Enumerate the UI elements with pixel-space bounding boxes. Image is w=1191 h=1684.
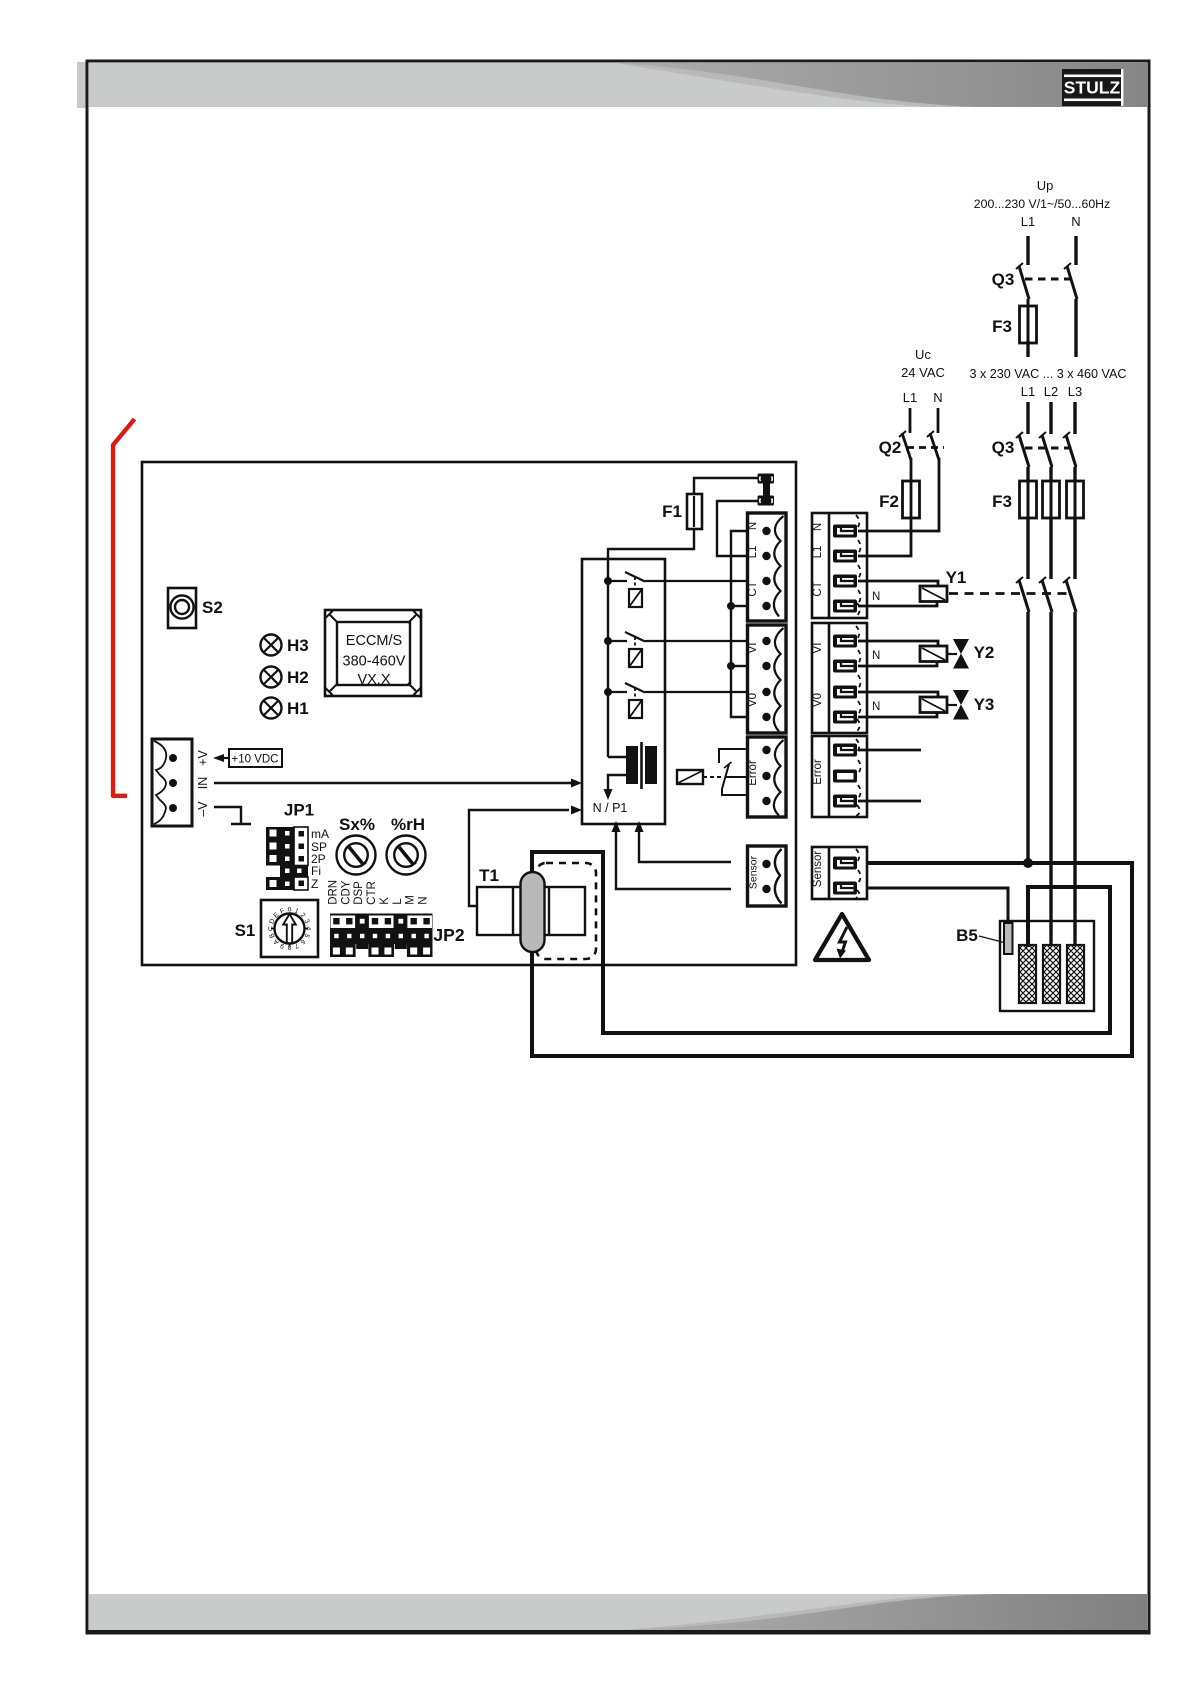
external terminal strip X2 (VI,V0) [812,623,867,733]
svg-text:Sensor: Sensor [812,851,824,888]
heating element E2 [1043,945,1060,1003]
svg-text:L1: L1 [903,390,917,405]
svg-text:8: 8 [287,943,291,950]
svg-text:Y2: Y2 [974,643,995,662]
wire sensor to B5 [866,888,1008,925]
node bus VI [604,637,612,645]
fuse F2 [879,458,919,518]
external terminal strip X1 (N,L1,CT) [812,513,867,618]
internal transformer [604,742,658,800]
controller relay box [582,559,665,824]
svg-text:ECCM/S: ECCM/S [346,633,402,649]
wire Up L1 stub [1026,236,1029,265]
svg-text:200...230 V/1~/50...60Hz: 200...230 V/1~/50...60Hz [974,197,1110,211]
svg-text:Q2: Q2 [879,438,902,457]
jumper block JP2 [327,880,464,957]
wire T1 primary to controller [469,810,569,906]
board connector block Sensor [748,846,787,906]
svg-text:F3: F3 [992,317,1012,336]
jumper block JP1 [266,801,314,891]
node bus CT [604,577,612,585]
wire N bus inner [731,531,746,717]
wire error out bottom [858,800,921,803]
svg-text:%rH: %rH [391,815,425,834]
svg-text:N / P1: N / P1 [593,801,628,815]
terminal X1:N [833,525,857,538]
relay channel V0 [608,683,746,718]
fuse F3 L1 [992,481,1036,518]
svg-text:L1: L1 [1021,384,1035,399]
arrow T1 into controller [571,806,582,815]
terminal X2:VI1 [833,635,857,648]
svg-text:Z: Z [311,877,318,891]
svg-text:Uc: Uc [915,347,931,362]
svg-text:4: 4 [304,927,311,931]
svg-text:Up: Up [1037,178,1054,193]
potentiometer Sx% [337,815,376,875]
svg-text:Error: Error [747,760,759,786]
analog input connector (3-pin) [152,739,192,826]
lamp H3 [261,635,309,656]
JP1 row labels [311,827,329,891]
solenoid valve Y2 [858,639,994,669]
header bar [89,63,1148,107]
wire L2 to heater [1049,612,1052,946]
node N bus VI [727,662,735,670]
svg-text:N: N [933,390,942,405]
board connector block VI,V0 [747,625,786,733]
relay channel VI [608,632,746,667]
svg-text:N: N [812,523,824,531]
svg-text:N: N [872,701,880,713]
relay channel CT [608,572,746,607]
svg-text:VI: VI [747,643,759,654]
node L1 heater N [1023,858,1033,868]
svg-text:L1: L1 [812,546,824,559]
terminal X3:1 [833,744,857,757]
svg-text:V0: V0 [812,693,824,707]
breaker Q3 (3ph) [992,432,1076,467]
switch Q2 [879,431,944,460]
svg-text:H3: H3 [287,636,309,655]
wire L2 stub [1049,402,1052,434]
external terminal strip X3 (Error) [812,736,867,817]
svg-text:Y3: Y3 [974,695,995,714]
solenoid valve Y3 [858,690,994,720]
svg-text:STULZ: STULZ [1064,78,1121,98]
pushbutton S2 [168,588,223,628]
footer bar [87,1594,1149,1635]
+10 VDC source box [229,749,282,767]
terminal X2:V01 [833,686,857,699]
contactor Y1 contacts [1016,577,1076,612]
lamp H1 [261,698,309,719]
board connector block CT (N,L1,CT) [747,513,786,621]
node N bus CT [727,602,735,610]
svg-text:Y1: Y1 [946,568,967,587]
terminal X1:L1 [833,550,857,563]
svg-text:L3: L3 [1068,384,1082,399]
terminal X1:CT1 [833,575,857,588]
node bus V0 [604,688,612,696]
svg-text:V0: V0 [747,693,759,707]
svg-text:L1: L1 [747,546,759,559]
fuse F1 [662,494,702,529]
wires Q3 to F3 [1026,467,1029,481]
svg-text:S2: S2 [202,598,223,617]
wire link to L1 terminal [717,501,758,556]
rotary switch S1 [235,900,318,957]
controller board outline [142,462,796,965]
svg-text:+10 VDC: +10 VDC [232,754,279,766]
lamp H2 [261,667,309,688]
svg-text:+V: +V [196,750,210,766]
svg-text:K: K [379,897,391,905]
changeover contact error [719,749,746,795]
wire +V arrow [213,754,229,762]
svg-text:Sensor: Sensor [748,855,760,889]
svg-text:N: N [418,896,430,904]
wire L1 stub [1026,402,1029,434]
svg-text:CT: CT [812,581,824,596]
svg-text:Q3: Q3 [992,270,1015,289]
svg-text:CDY: CDY [340,880,352,905]
heating element E3 [1067,945,1084,1003]
wire Uc N stub [937,408,940,433]
wire IN to controller [214,782,573,784]
svg-text:380-460V: 380-460V [343,654,406,670]
fuse F3 (1ph) [992,299,1036,357]
wire F1 to link [694,478,758,494]
fuse F3 L2 [1043,481,1060,518]
link jumper (mains plug) [758,474,775,506]
svg-text:JP1: JP1 [284,801,314,820]
terminal X2:VI-N [833,660,857,673]
relay coil Y1 [858,568,1072,606]
svg-text:H1: H1 [287,699,309,718]
terminal X3:3 [833,795,857,808]
svg-text:Fi: Fi [311,864,321,878]
svg-text:F3: F3 [992,492,1012,511]
svg-text:L1: L1 [1021,214,1035,229]
warning triangle [815,914,869,960]
terminal X4:1 [833,857,857,870]
external terminal strip X4 (Sensor) [812,847,867,899]
svg-text:3 x 230 VAC ... 3 x 460 VAC: 3 x 230 VAC ... 3 x 460 VAC [969,367,1126,381]
heater box B5 assembly [1000,921,1094,1011]
temperature sensor B5 [956,923,1012,954]
terminal X1:CT2 [833,600,857,613]
svg-text:24 VAC: 24 VAC [901,365,945,380]
svg-text:L2: L2 [1044,384,1058,399]
svg-text:Q3: Q3 [992,438,1015,457]
wire Up N stub [1074,236,1077,265]
heating element E1 [1019,945,1036,1003]
svg-text:VI: VI [812,643,824,654]
svg-text:N: N [747,522,759,530]
terminal X2:V0-N [833,711,857,724]
breaker Q3 (1ph) [992,263,1077,299]
wire Up N down [1074,299,1077,357]
potentiometer %rH [387,815,426,875]
svg-text:C: C [268,926,275,931]
svg-text:CT: CT [747,581,759,596]
fuse F3 L3 [1067,481,1084,518]
board connector block Error [747,737,786,817]
svg-text:VX.X: VX.X [357,672,390,688]
wire F1 feed bus [608,529,694,757]
red bracket (callout) [113,419,135,796]
T1 shield dashed box [536,863,596,959]
svg-text:F2: F2 [879,492,899,511]
arrow IN into controller [571,779,582,788]
svg-text:mA: mA [311,827,329,841]
svg-text:M: M [405,895,417,905]
svg-text:N: N [872,650,880,662]
arrow sensor B into relay box [612,821,732,889]
wire L3 to heater [1073,612,1076,946]
wire error out top [858,749,921,752]
terminal X4:2 [833,882,857,895]
svg-text:0: 0 [288,907,292,914]
wire L3 stub [1073,402,1076,434]
wire Q2-N to X1 [858,458,939,531]
terminal X3:2 [833,770,857,783]
STULZ logo [1062,69,1123,106]
svg-text:DRN: DRN [327,880,339,905]
wire Uc L1 stub [909,408,912,433]
svg-text:JP2: JP2 [433,925,464,945]
svg-text:N: N [1071,214,1080,229]
svg-text:F1: F1 [662,502,682,521]
svg-text:–V: –V [196,801,210,817]
svg-text:CTR: CTR [366,881,378,905]
svg-text:T1: T1 [479,866,499,885]
svg-text:IN: IN [196,777,210,790]
wire core-top loop to heater L1 [532,852,1110,1033]
svg-text:B5: B5 [956,926,978,945]
svg-text:DSP: DSP [353,881,365,905]
relay K1 error coil [677,770,722,784]
svg-text:S1: S1 [235,921,256,940]
T1 core probe [521,872,545,952]
ground -V [214,807,251,824]
svg-text:H2: H2 [287,668,309,687]
wire L1 to node [1026,612,1029,861]
wire Q2-L1 to X1 [858,516,911,556]
display module U1 ECCM/S [325,610,421,696]
arrow sensor A into relay box [635,821,732,862]
svg-text:L: L [392,898,404,905]
svg-text:Sx%: Sx% [339,815,375,834]
wires F3 to contactor [1026,518,1029,579]
transformer T1 [477,866,585,935]
svg-text:N: N [872,591,880,603]
wire core-bottom loop to sensor/N [532,863,1132,1056]
svg-text:Error: Error [812,759,824,785]
